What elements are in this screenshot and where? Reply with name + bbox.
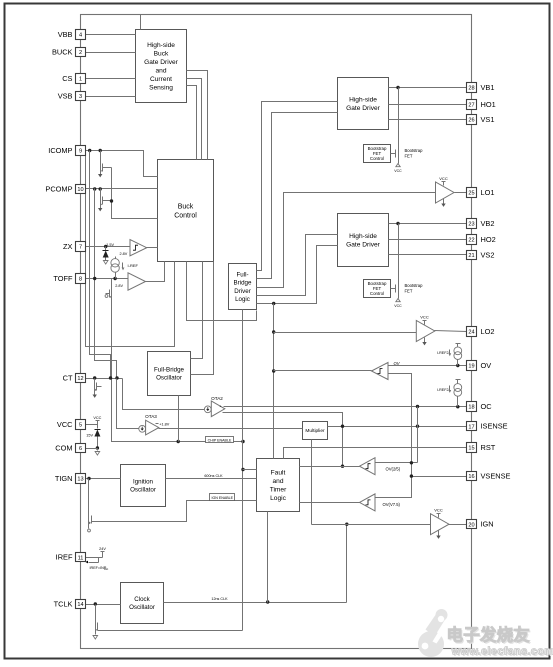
node vsense rail at OV25: [410, 461, 413, 464]
block Bootstrap FET Control 2: [364, 280, 391, 298]
wire FBDL out3 to LO1 buffer: [257, 193, 436, 288]
current source at OC: [454, 384, 462, 392]
svg-text:+1.8V: +1.8V: [159, 423, 169, 427]
pin 19 OV: [467, 361, 477, 371]
svg-text:Fault: Fault: [271, 470, 286, 477]
bubble chip-enable gate: [105, 295, 108, 298]
comparator ZX: [130, 240, 147, 256]
buffer LO2: [416, 321, 435, 342]
wire VSB to buck driver: [86, 96, 136, 98]
svg-text:VBB: VBB: [58, 30, 73, 39]
svg-text:Sensing: Sensing: [149, 85, 173, 92]
svg-text:7: 7: [79, 245, 82, 251]
svg-text:电子发烧友: 电子发烧友: [447, 625, 531, 645]
node gate rail at M2: [110, 199, 113, 202]
svg-text:PCOMP: PCOMP: [45, 184, 72, 193]
wire LO2 fault rail: [273, 304, 275, 459]
ground at ZX diode: [103, 261, 108, 265]
node CT ota3 tap: [115, 376, 118, 379]
block Bootstrap FET Control 1: [364, 145, 391, 163]
node OC current source tap: [456, 405, 459, 408]
comparator OV(V7.5): [360, 494, 376, 511]
wire PCOMP to Buck Control: [86, 188, 158, 190]
ground at LO1 buffer: [443, 199, 445, 204]
svg-text:ICOMP: ICOMP: [48, 146, 72, 155]
arrow I-REF: [122, 263, 124, 269]
wire chip-enable rail down: [112, 299, 243, 442]
wire LO2 buffer out to pin: [435, 331, 467, 332]
pin 26 VS1: [467, 115, 477, 125]
vcc at LO2 buffer: [424, 321, 426, 325]
block High-side Gate Driver U1: [338, 78, 389, 130]
pin 24 LO2: [467, 327, 477, 337]
svg-text:Control: Control: [370, 291, 384, 296]
wire ZX to comparator: [86, 246, 131, 248]
wire to LO2 buffer: [274, 332, 417, 334]
transistor bootstrap FET 2: [398, 224, 400, 285]
node 12ns to fault: [266, 600, 269, 603]
svg-text:TIGN: TIGN: [55, 474, 73, 483]
ground M1 source: [100, 173, 102, 175]
wire FBDL bottom rail down: [242, 310, 244, 631]
node PCOMP M2 drain: [99, 187, 102, 190]
block Full-Bridge Oscillator: [148, 352, 191, 396]
svg-text:Gate Driver: Gate Driver: [346, 105, 381, 112]
svg-text:2: 2: [79, 50, 82, 56]
svg-text:8: 8: [79, 277, 82, 283]
arrow iref2 ov: [449, 350, 451, 354]
svg-text:ZX: ZX: [63, 242, 73, 251]
wire 600ns CLK ignition osc to fault logic: [166, 478, 257, 480]
wire IGN buffer out: [449, 524, 467, 526]
node LO2 wire tap: [272, 330, 275, 333]
bubble ign mosfet: [88, 525, 90, 529]
pin 18 OC: [467, 402, 477, 412]
svg-text:Clock: Clock: [134, 596, 150, 603]
wire Buck Control bottom to FBDL corner: [187, 262, 257, 321]
wire ZX comparator out to Buck Control: [147, 247, 158, 249]
wire ign mosfet to IGN ENABLE: [96, 501, 257, 522]
pin 3 VSB: [76, 92, 86, 101]
pin 5 VCC: [76, 420, 86, 430]
svg-text:Control: Control: [370, 156, 384, 161]
wire OV25 out to Fault: [300, 466, 360, 468]
wire FB osc out 2 to Buck Control: [191, 262, 214, 375]
svg-text:VSB: VSB: [58, 91, 73, 100]
wire gate rail M1 M2 to Buck Control: [112, 168, 158, 219]
wire IREF: [86, 557, 103, 559]
svg-text:6: 6: [79, 446, 82, 452]
svg-text:VCC: VCC: [420, 314, 429, 319]
svg-text:CT: CT: [63, 373, 73, 382]
transistor at TCLK: [95, 605, 97, 622]
block Buck Control: [158, 160, 214, 262]
ground at LO2 buffer: [424, 338, 426, 343]
svg-text:VCC: VCC: [394, 169, 402, 173]
svg-text:22: 22: [468, 238, 474, 244]
svg-text:Bootstrap: Bootstrap: [405, 148, 424, 153]
block Clock Oscillator: [121, 583, 164, 624]
svg-text:12: 12: [77, 376, 83, 382]
vcc at IGN buffer: [438, 514, 440, 518]
svg-text:Full-Bridge: Full-Bridge: [154, 367, 184, 374]
wire clock to IGN gate rail: [346, 525, 348, 603]
wire CT to OTA3 input: [117, 379, 139, 429]
block High-side Buck Gate Driver and Current Sensing: [136, 30, 187, 103]
svg-text:24V: 24V: [99, 547, 106, 551]
svg-text:OTA3: OTA3: [145, 414, 157, 419]
buffer IGN: [431, 514, 450, 535]
svg-text:Bridge: Bridge: [234, 280, 252, 287]
svg-text:ext: ext: [104, 567, 108, 571]
wire TOFF to comparator: [86, 278, 129, 280]
pin 27 HO1: [467, 100, 477, 110]
pin 10 PCOMP: [76, 185, 86, 194]
svg-text:I-REF2: I-REF2: [437, 388, 449, 392]
svg-text:23: 23: [468, 222, 474, 228]
pin 6 COM: [76, 444, 86, 453]
current source at OV: [454, 347, 462, 355]
ground at COM: [97, 449, 99, 451]
vcc tick at VCC pin: [97, 421, 99, 425]
pin 13 TIGN: [76, 474, 86, 484]
svg-text:18: 18: [468, 405, 474, 411]
svg-text:4: 4: [79, 33, 82, 39]
svg-text:Logic: Logic: [270, 495, 286, 502]
transistor bootstrap FET 1: [398, 88, 400, 149]
label box CHIP ENABLE: [206, 437, 234, 443]
svg-text:FET: FET: [405, 154, 413, 159]
svg-text:11: 11: [78, 555, 84, 561]
pin 2 BUCK: [76, 48, 86, 57]
wire CT: [86, 378, 123, 380]
wire OV pin to comparator: [389, 365, 467, 367]
comparator OV(2/5): [360, 458, 376, 475]
svg-text:COM: COM: [55, 443, 72, 452]
wire TOFF comparator out to Buck Control bottom: [146, 262, 165, 282]
comparator TOFF: [128, 273, 146, 291]
svg-text:12ns CLK: 12ns CLK: [211, 597, 228, 601]
ground CT mosfet: [94, 392, 96, 395]
wire CT to OTA2 input: [123, 379, 205, 410]
pin 20 IGN: [467, 520, 477, 529]
svg-text:Multiplier: Multiplier: [305, 428, 325, 434]
wire buck driver out 3 to Buck Control: [187, 86, 197, 160]
svg-text:28: 28: [468, 86, 474, 92]
svg-text:Oscillator: Oscillator: [156, 375, 182, 382]
svg-text:Gate Driver: Gate Driver: [346, 242, 381, 249]
svg-text:VCC: VCC: [434, 508, 443, 513]
svg-text:OV(2/5): OV(2/5): [386, 467, 401, 472]
wire rail OC to isense to OV comp out: [417, 407, 419, 463]
svg-text:1.5V: 1.5V: [106, 243, 114, 247]
svg-text:High-side: High-side: [349, 233, 377, 240]
svg-text:Oscillator: Oscillator: [129, 604, 155, 611]
svg-text:VCC: VCC: [394, 304, 402, 308]
block Ignition Oscillator: [121, 465, 166, 507]
node OV out join: [272, 369, 275, 372]
wire VBB to buck driver: [86, 34, 136, 36]
pin 1 CS: [76, 74, 86, 84]
svg-text:5: 5: [79, 423, 82, 429]
wire OV75 out to Fault: [300, 502, 360, 504]
block Multiplier: [303, 422, 328, 440]
wire buck driver out 1 to Buck Control: [187, 71, 208, 160]
svg-text:Current: Current: [150, 76, 172, 83]
diode 15V zener: [97, 425, 99, 429]
pin 22 HO2: [467, 235, 477, 245]
wire FB osc out 1 to Buck Control: [191, 262, 203, 359]
wire buck driver out 2 to Buck Control: [187, 79, 202, 160]
svg-text:VSENSE: VSENSE: [481, 472, 511, 481]
svg-text:Ignition: Ignition: [133, 479, 154, 486]
wire LO1 buffer out: [455, 192, 467, 194]
svg-text:20: 20: [468, 522, 474, 528]
svg-text:VCC: VCC: [93, 416, 101, 420]
svg-text:17: 17: [468, 424, 474, 430]
node OV current source tap: [456, 364, 459, 367]
vcc at LO1 buffer: [443, 182, 445, 186]
IC boundary: [81, 15, 472, 649]
svg-text:15: 15: [468, 446, 474, 452]
svg-text:VCC: VCC: [439, 176, 448, 181]
wire multiplier bottom to IGN line: [311, 440, 313, 525]
wire OTA3 out to Multiplier: [159, 428, 303, 430]
svg-text:19: 19: [468, 364, 474, 370]
wire branch to Fault left: [243, 469, 257, 471]
svg-text:Buck: Buck: [178, 203, 194, 210]
svg-text:Buck: Buck: [154, 51, 169, 58]
svg-text:OV: OV: [481, 361, 492, 370]
node IGN wire clock tap: [345, 523, 348, 526]
node PCOMP rail B: [93, 187, 96, 190]
svg-text:21: 21: [468, 253, 474, 259]
transistor at CT: [94, 379, 96, 382]
wire FBDL out1 to gate driver1 in1: [257, 102, 338, 271]
svg-text:FET: FET: [405, 289, 413, 294]
pin 23 VB2: [467, 219, 477, 229]
wire ICOMP to Buck Control: [86, 151, 158, 177]
pin 16 VSENSE: [467, 472, 477, 481]
node CT mosfet tap: [93, 376, 96, 379]
svg-text:High-side: High-side: [147, 42, 175, 49]
wire gate driver2 to VB2: [389, 223, 467, 225]
wire rail C PCOMP TOFF to OTA3: [95, 189, 117, 379]
transistor M1 at ICOMP: [100, 151, 102, 163]
node CT rail B: [109, 376, 112, 379]
pin 12 CT: [76, 374, 86, 383]
node bootstrap1 tap: [396, 86, 399, 89]
node ZX diode tap: [104, 245, 107, 248]
node TIGN rail: [87, 477, 90, 480]
svg-text:14: 14: [77, 602, 83, 608]
svg-text:VCC: VCC: [57, 420, 73, 429]
pin 15 RST: [467, 443, 477, 453]
svg-text:VB2: VB2: [481, 219, 495, 228]
svg-text:24: 24: [468, 330, 474, 336]
wire gate driver1 to VB1: [389, 87, 467, 89]
transistor M2 at PCOMP: [100, 189, 102, 197]
node FBDL rail fault branch: [241, 468, 244, 471]
node isense rail1: [341, 425, 344, 428]
svg-text:High-side: High-side: [349, 97, 377, 104]
block High-side Gate Driver U2: [338, 214, 389, 267]
arrow iref2 oc: [449, 386, 451, 391]
node vsense rail: [410, 474, 413, 477]
wire gate driver2 to VS2: [389, 254, 467, 256]
ground at TCLK mosfet: [95, 632, 97, 635]
buffer LO1: [436, 182, 455, 203]
svg-text:Control: Control: [174, 212, 197, 219]
wire OTA2 out to OC pin: [224, 406, 467, 408]
wire BUCK to buck driver: [86, 52, 136, 54]
wire gate driver1 to VS1: [389, 119, 467, 121]
wire rail B ICOMP to CT: [90, 151, 111, 379]
svg-text:26: 26: [468, 118, 474, 124]
wire TCLK mosfet gate to FBDL rail: [102, 630, 243, 632]
svg-text:OTA2: OTA2: [211, 396, 223, 401]
pin 21 VS2: [467, 251, 477, 260]
node TCLK mosfet tap: [94, 602, 97, 605]
svg-text:16: 16: [468, 474, 474, 480]
node TOFF rail B: [93, 277, 96, 280]
svg-text:IGN ENABLE: IGN ENABLE: [212, 496, 234, 500]
node TOFF current source tap: [113, 277, 116, 280]
label box IGN ENABLE: [210, 494, 235, 501]
wire OTA2 lower to isense rail: [223, 413, 343, 467]
op-amp OTA2: [204, 406, 211, 413]
svg-text:Full-: Full-: [236, 271, 248, 278]
svg-text:600ns CLK: 600ns CLK: [204, 474, 223, 478]
wire FB osc bottom to chip enable: [178, 396, 180, 442]
transistor ignition disable: [88, 479, 90, 515]
wire TIGN to Ignition Oscillator: [86, 478, 121, 480]
wire Multiplier to ISENSE: [328, 426, 467, 428]
block Full-Bridge Driver Logic: [229, 264, 257, 310]
svg-text:and: and: [155, 68, 166, 75]
comparator OV: [372, 363, 389, 380]
pin 11 IREF: [76, 553, 86, 562]
wire RST from fault: [284, 448, 467, 459]
wire 12ns CLK up to Fault bottom: [267, 512, 269, 603]
svg-text:2.8V: 2.8V: [119, 252, 127, 256]
node chip enable at FB osc: [177, 440, 180, 443]
svg-text:TOFF: TOFF: [53, 274, 73, 283]
wire COM pin: [86, 448, 98, 450]
node OC rail join: [416, 405, 419, 408]
wire 12ns CLK clock osc out: [164, 602, 347, 604]
svg-text:and: and: [272, 478, 283, 485]
svg-text:VS1: VS1: [481, 115, 495, 124]
node ICOMP rail A: [88, 149, 91, 152]
wire OV25 input: [375, 462, 418, 464]
pin 8 TOFF: [76, 274, 86, 284]
node LO2 rail tap: [272, 302, 275, 305]
svg-text:HO1: HO1: [481, 100, 496, 109]
svg-text:BUCK: BUCK: [52, 47, 73, 56]
op-amp OTA3: [139, 425, 146, 432]
svg-text:13: 13: [77, 477, 83, 483]
wire gate driver2 to HO2: [389, 239, 467, 241]
pin 28 VB1: [467, 83, 477, 93]
node at OV25 out: [341, 465, 344, 468]
node COM junction: [96, 446, 99, 449]
wire rail A pin stub to Buck Control bottom: [86, 156, 175, 347]
pin 14 TCLK: [76, 600, 86, 609]
wire IGN line: [312, 524, 431, 526]
svg-text:OC: OC: [481, 402, 493, 411]
svg-text:Gate Driver: Gate Driver: [144, 59, 179, 66]
svg-text:HO2: HO2: [481, 235, 496, 244]
svg-text:CHIP ENABLE: CHIP ENABLE: [208, 438, 232, 442]
node bootstrap2 tap: [396, 222, 399, 225]
wire VSENSE pin: [412, 476, 467, 478]
svg-text:9: 9: [79, 149, 82, 155]
pin 9 ICOMP: [76, 146, 86, 156]
svg-text:Timer: Timer: [270, 487, 287, 494]
arrow IREF set: [89, 562, 99, 564]
ground at IGN buffer: [438, 531, 440, 536]
svg-text:Oscillator: Oscillator: [130, 487, 156, 494]
svg-text:LO1: LO1: [481, 188, 495, 197]
svg-text:RST: RST: [481, 443, 496, 452]
wire FBDL out4 to gate driver2 in1: [257, 235, 338, 296]
wire buck driver top to IC top: [140, 15, 142, 30]
svg-text:LO2: LO2: [481, 327, 495, 336]
svg-text:CS: CS: [62, 74, 72, 83]
wire FBDL out5 to gate driver2 in2: [257, 246, 338, 304]
svg-text:I-REF2: I-REF2: [437, 351, 449, 355]
wire TCLK to Clock Oscillator: [86, 604, 121, 606]
wire gate driver1 to HO1: [389, 104, 467, 106]
svg-text:15V: 15V: [86, 433, 93, 437]
pin 7 ZX: [76, 242, 86, 252]
pin 4 VBB: [76, 30, 86, 40]
svg-text:Bootstrap: Bootstrap: [405, 283, 424, 288]
block Fault and Timer Logic: [257, 459, 300, 512]
svg-text:VB1: VB1: [481, 83, 495, 92]
svg-text:10: 10: [77, 187, 83, 193]
svg-text:VS2: VS2: [481, 250, 495, 259]
node chip enable at FBDL rail: [241, 440, 244, 443]
wire OV plus input: [375, 374, 412, 498]
node isense rail2: [416, 425, 419, 428]
svg-text:I-REF: I-REF: [128, 263, 139, 268]
pin 25 LO1: [467, 188, 477, 198]
watermark logo: [418, 609, 448, 657]
svg-text:Driver: Driver: [234, 288, 251, 295]
svg-text:www.elecfans.com: www.elecfans.com: [451, 646, 553, 658]
svg-text:25: 25: [468, 191, 474, 197]
wire OV out to fault rail: [274, 370, 372, 372]
diode ZX clamp: [105, 247, 107, 251]
svg-text:OV(V7.5): OV(V7.5): [383, 502, 401, 507]
svg-text:3: 3: [79, 94, 82, 100]
pin 17 ISENSE: [467, 422, 477, 431]
wire FBDL out2 to gate driver1 in2: [257, 113, 338, 279]
svg-text:Logic: Logic: [235, 296, 250, 303]
transistor chip-enable at TOFF: [111, 279, 113, 289]
24V tick at IREF: [102, 552, 104, 558]
svg-text:27: 27: [468, 103, 474, 109]
svg-text:IREF: IREF: [56, 553, 73, 562]
current source I-REF at TOFF: [111, 259, 119, 267]
svg-text:ISENSE: ISENSE: [481, 422, 508, 431]
svg-text:TCLK: TCLK: [54, 599, 73, 608]
ground M2 source: [100, 207, 102, 209]
label +1.8V: [156, 423, 159, 425]
node ICOMP M1 drain: [99, 149, 102, 152]
